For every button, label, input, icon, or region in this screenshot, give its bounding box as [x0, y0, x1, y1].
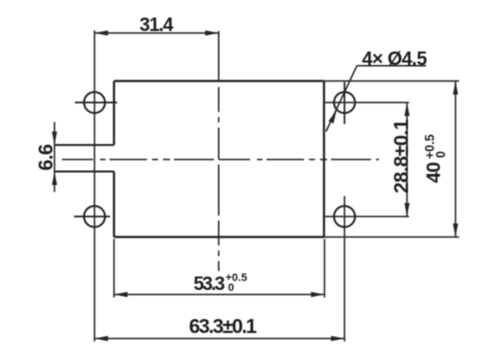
- leader underline: [357, 65, 426, 67]
- dimension 53.3 right arrow: [311, 292, 325, 297]
- hole top-right: [334, 92, 355, 113]
- tab top edge: [54, 144, 114, 146]
- label 40 with tolerance: [423, 134, 448, 183]
- leader arrow: [328, 111, 336, 124]
- right hole column lower extension line: [344, 196, 346, 342]
- part outline right edge: [323, 81, 325, 237]
- part outline bottom edge: [114, 236, 324, 238]
- dimension 53.3 left arrow: [114, 292, 128, 297]
- hole top-right vertical crosshair: [344, 82, 346, 124]
- horizontal center line: [62, 159, 379, 161]
- dimension 53.3 right extension line: [324, 239, 326, 298]
- dimension 28.8 bottom arrow: [404, 203, 409, 217]
- dimension 6.6 line: [54, 122, 56, 192]
- dimension 40 line: [455, 81, 457, 237]
- left hole column extension line: [94, 31, 96, 342]
- dimension 6.6 bottom arrow: [52, 172, 57, 186]
- dimension 31.4 left arrow: [95, 30, 109, 35]
- svg-text:6.6: 6.6: [36, 144, 58, 171]
- dimension 63.3 line: [95, 338, 345, 340]
- dimension 40 top arrow: [453, 81, 458, 95]
- dimension 40 bottom arrow: [453, 224, 458, 238]
- leader line 4x dia 4.5: [326, 66, 357, 132]
- dimension 53.3 line: [114, 294, 325, 296]
- svg-text:63.3±0.1: 63.3±0.1: [189, 316, 257, 338]
- tab bottom edge: [54, 171, 114, 173]
- dimension 28.8 top extension line: [324, 102, 409, 104]
- svg-text:28.8±0.1: 28.8±0.1: [391, 119, 413, 193]
- dimension 31.4 line: [95, 32, 219, 34]
- dimension 28.8 top arrow: [404, 103, 409, 117]
- part outline left edge lower: [113, 172, 115, 238]
- vertical center line: [218, 31, 220, 271]
- dimension 28.8 bottom extension line: [324, 216, 409, 218]
- dimension 31.4 right arrow: [205, 30, 219, 35]
- hole top-left: [84, 92, 105, 113]
- dimension 53.3 left extension line: [113, 239, 115, 298]
- dimension 28.8 line: [406, 103, 408, 217]
- dimension 63.3 right arrow: [331, 336, 345, 341]
- dimension 63.3 left arrow: [95, 336, 109, 341]
- svg-text:31.4: 31.4: [140, 15, 174, 36]
- svg-text:4× Ø4.5: 4× Ø4.5: [362, 49, 428, 70]
- dimension 40 bottom extension line: [324, 236, 459, 238]
- svg-text:40: 40: [423, 162, 445, 183]
- dimension 40 top extension line: [324, 80, 459, 82]
- hole bottom-left horizontal crosshair: [74, 216, 110, 218]
- hole bottom-right: [334, 206, 355, 227]
- dimension 6.6 top arrow: [52, 132, 57, 146]
- svg-text:0: 0: [228, 282, 234, 294]
- part outline top edge: [114, 80, 324, 82]
- svg-text:53.3: 53.3: [194, 274, 225, 295]
- hole top-left horizontal crosshair: [75, 102, 117, 104]
- hole bottom-left: [84, 206, 105, 227]
- part outline left edge upper: [113, 81, 115, 145]
- svg-text:0: 0: [434, 151, 448, 158]
